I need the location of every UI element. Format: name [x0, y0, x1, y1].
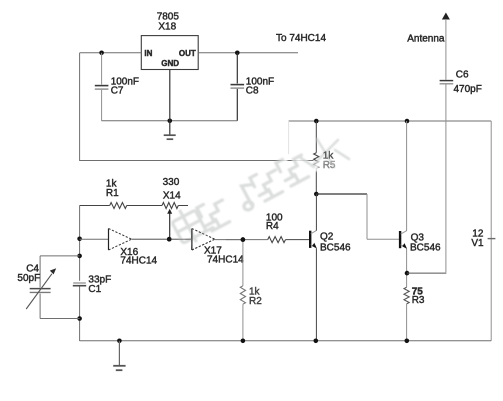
svg-text:74HC14: 74HC14 — [120, 256, 157, 267]
svg-text:V1: V1 — [471, 238, 484, 249]
svg-text:GND: GND — [161, 59, 179, 68]
svg-text:IN: IN — [144, 49, 152, 58]
svg-text:X14: X14 — [163, 191, 181, 202]
svg-text:C6: C6 — [456, 69, 469, 80]
svg-text:R3: R3 — [412, 295, 425, 306]
svg-text:X18: X18 — [158, 22, 176, 33]
svg-text:C1: C1 — [88, 284, 101, 295]
svg-text:R4: R4 — [266, 221, 279, 232]
svg-text:BC546: BC546 — [320, 242, 351, 253]
svg-text:Q2: Q2 — [320, 231, 334, 242]
svg-text:BC546: BC546 — [410, 242, 441, 253]
svg-text:330: 330 — [163, 177, 180, 188]
svg-text:470pF: 470pF — [454, 84, 482, 95]
svg-text:C8: C8 — [246, 86, 259, 97]
svg-text:To 74HC14: To 74HC14 — [276, 33, 326, 44]
svg-text:R1: R1 — [106, 188, 119, 199]
svg-text:Antenna: Antenna — [407, 34, 445, 45]
svg-text:50pF: 50pF — [17, 273, 40, 284]
svg-text:C7: C7 — [111, 86, 124, 97]
svg-text:R5: R5 — [323, 160, 336, 171]
svg-text:74HC14: 74HC14 — [207, 254, 244, 265]
svg-text:OUT: OUT — [179, 49, 196, 58]
svg-text:R2: R2 — [249, 296, 262, 307]
